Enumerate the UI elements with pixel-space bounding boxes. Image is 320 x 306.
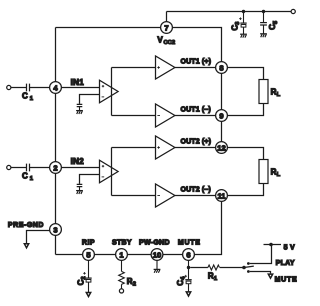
op-amp A2 [100, 160, 119, 183]
wire B1 to pin8 [175, 67, 216, 69]
svg-text:C3: C3 [231, 21, 242, 31]
svg-text:V: V [157, 36, 163, 45]
svg-text:10: 10 [153, 250, 161, 259]
node MUTE junction [187, 266, 190, 269]
svg-text:PW-GND: PW-GND [139, 239, 170, 246]
pin 11 [216, 190, 228, 202]
svg-text:C: C [22, 171, 28, 180]
pin 10 [151, 249, 163, 261]
wire B2 to pin9 [175, 115, 216, 117]
buffer B3 [156, 136, 175, 159]
terminal input 2 [7, 165, 11, 169]
wire RL1 to pin9 [227, 104, 263, 116]
ground of C5 [260, 34, 267, 37]
wire input1 to C1 [11, 87, 27, 89]
svg-text:C2: C2 [76, 276, 87, 285]
svg-text:1: 1 [30, 96, 34, 102]
svg-text:OUT2 (+): OUT2 (+) [181, 139, 212, 146]
node junction C5 [262, 10, 265, 13]
wire pin4 to op-amp1 [61, 87, 99, 89]
svg-text:C: C [22, 91, 28, 100]
svg-text:9: 9 [219, 111, 223, 120]
wire pin7 stub up [166, 12, 168, 22]
arrow MUTE [268, 274, 272, 278]
wire pin8-pin9 column [221, 73, 223, 109]
pin 2 [50, 162, 62, 174]
pin 3 [50, 224, 62, 236]
wire left input bus vertical [55, 28, 57, 255]
switch pole node [242, 266, 246, 270]
svg-text:OUT1 (+): OUT1 (+) [181, 59, 212, 66]
wire MUTE contact to arrow [250, 272, 271, 274]
svg-text:PRE-GND: PRE-GND [8, 222, 44, 229]
wire pin10 to ground [156, 260, 158, 269]
svg-text:5 V: 5 V [284, 244, 295, 251]
svg-text:PLAY: PLAY [276, 260, 295, 267]
wire pin7 right then down to pin8 [172, 28, 221, 62]
wire pin2 to op-amp2 [61, 167, 99, 169]
svg-text:7: 7 [164, 23, 168, 32]
switch contact PLAY [247, 262, 250, 265]
wire bottom bus [56, 201, 222, 254]
arrow C4 [186, 292, 190, 296]
wire output split ch1 [112, 68, 156, 116]
wire op1 inverting input [80, 95, 100, 104]
capacitor C1 (channel 1) [27, 84, 30, 92]
svg-text:OUT2 (–): OUT2 (–) [181, 187, 211, 194]
ground PW-GND [154, 269, 161, 272]
svg-text:L: L [277, 172, 281, 178]
capacitor op1 feedback [77, 104, 83, 106]
wire 5V bar [264, 244, 282, 246]
buffer B4 [156, 184, 175, 207]
arrow PRE-GND [24, 244, 28, 248]
ground op1 cap [76, 111, 83, 114]
capacitor C2 [76, 260, 91, 292]
buffer B2 [156, 104, 175, 127]
svg-text:11: 11 [217, 191, 226, 200]
resistor R1 [208, 265, 220, 270]
wire output split ch2 [112, 148, 156, 196]
op-amp A1 [100, 80, 119, 103]
svg-text:IN2: IN2 [71, 157, 85, 166]
ground op2 cap [76, 191, 83, 194]
buffer B1 [156, 56, 175, 79]
arrow C2 [86, 293, 90, 297]
wire PLAY contact to 5V [250, 245, 272, 264]
pin 4 [50, 82, 62, 94]
wire C1 to pin4 [30, 87, 50, 89]
svg-text:OUT1 (–): OUT1 (–) [181, 107, 211, 114]
svg-text:2: 2 [133, 281, 136, 287]
wire pin7 left to input bus [56, 27, 161, 29]
svg-text:STBY: STBY [112, 239, 132, 246]
ground of C3 [240, 34, 247, 37]
wire top supply rail [167, 11, 292, 13]
terminal input 1 [7, 85, 11, 89]
wire pin8 to RL1 [227, 68, 263, 80]
pin 7 [161, 22, 173, 34]
svg-text:12: 12 [217, 143, 225, 152]
svg-text:RIP: RIP [82, 239, 95, 246]
pin 9 [216, 110, 228, 122]
svg-text:3: 3 [53, 225, 57, 234]
capacitor C5 [260, 12, 279, 34]
wire C1 to pin2 [30, 167, 50, 169]
wire pin9-pin12 column [221, 121, 223, 141]
capacitor C4 [176, 268, 192, 292]
node 5V [269, 243, 273, 247]
pin 1 [116, 249, 128, 261]
capacitor C3 [231, 12, 247, 35]
pin 6 [183, 249, 195, 261]
resistor RL1 [259, 80, 268, 104]
wire B4 to pin11 [175, 195, 216, 197]
svg-text:C4: C4 [176, 276, 187, 286]
svg-text:1: 1 [30, 176, 34, 182]
resistor R2 [119, 260, 125, 288]
wire input2 to C1 [11, 167, 27, 169]
wire pin3 to pre-gnd arrow [27, 231, 50, 244]
svg-text:MUTE: MUTE [275, 276, 298, 283]
wire pin6 down [188, 260, 190, 267]
wire junction to R1 [190, 267, 208, 269]
pin 5 [83, 249, 95, 261]
pin 12 [216, 142, 228, 154]
capacitor C1 (channel 2) [27, 164, 30, 172]
switch contact MUTE [247, 270, 250, 273]
svg-text:8: 8 [219, 63, 223, 72]
wire R1 to switch pole [220, 267, 244, 269]
wire RL2 to pin11 [227, 184, 263, 196]
svg-text:1: 1 [214, 276, 218, 282]
wire B3 to pin12 [175, 147, 216, 149]
wire pin12 to RL2 [227, 148, 263, 160]
wire op2 inverting input [80, 175, 100, 184]
capacitor op2 feedback [77, 184, 83, 186]
svg-text:MUTE: MUTE [178, 239, 201, 246]
resistor RL2 [259, 160, 268, 184]
svg-text:6: 6 [186, 250, 190, 259]
node junction C3 [242, 10, 245, 13]
svg-text:L: L [277, 92, 281, 98]
terminal supply (top right) [291, 9, 295, 13]
svg-text:2: 2 [53, 163, 57, 172]
pin 8 [216, 62, 228, 74]
svg-text:C5: C5 [268, 20, 279, 30]
switch lever [244, 266, 254, 267]
svg-text:IN1: IN1 [71, 78, 85, 87]
terminal R2 [119, 289, 123, 293]
svg-text:CC2: CC2 [164, 40, 176, 46]
